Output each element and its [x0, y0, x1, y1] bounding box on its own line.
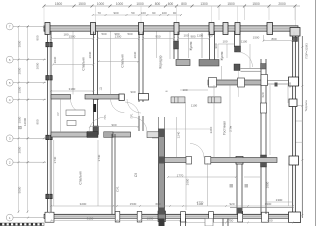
svg-text:100: 100: [141, 11, 146, 15]
svg-text:2000: 2000: [278, 2, 286, 6]
interior wall V8 x263: [261, 59, 266, 214]
kitchen door arc at V6 gap: [238, 52, 253, 67]
svg-text:500: 500: [101, 32, 106, 36]
bottom-left mini scale bar: [0, 223, 44, 226]
window dim top right: [264, 35, 293, 42]
interior horizontal wall H6 y70.5: [241, 68, 262, 70]
svg-text:1500: 1500: [227, 2, 235, 6]
interior wall V6 x237.5: [235, 32, 241, 48]
small marks near V7: [230, 184, 234, 188]
room labels vertical: [79, 41, 233, 184]
svg-text:950: 950: [155, 35, 160, 39]
door arc at V3 gap: [125, 102, 139, 116]
svg-text:800: 800: [271, 37, 276, 41]
interior horizontal wall H2 y132.5: [51, 129, 211, 138]
svg-text:2210: 2210: [209, 126, 213, 133]
svg-text:3150: 3150: [87, 217, 94, 221]
svg-text:1000: 1000: [136, 2, 144, 6]
svg-text:Спальня: Спальня: [79, 171, 83, 184]
svg-text:3000: 3000: [18, 40, 22, 47]
svg-text:800: 800: [36, 35, 40, 40]
svg-text:2000: 2000: [18, 67, 22, 74]
svg-text:1100: 1100: [191, 104, 198, 108]
door arc on H3: [190, 144, 204, 158]
top dimension chain row 2: [93, 14, 181, 16]
svg-text:920: 920: [229, 202, 234, 206]
bathroom fixtures: [66, 110, 85, 126]
svg-text:1500: 1500: [69, 35, 76, 39]
svg-text:С9: С9: [134, 173, 138, 177]
svg-text:3180: 3180: [69, 87, 76, 91]
top exterior wall band: [44, 26, 298, 31]
porch stubs below bottom wall: [181, 219, 229, 227]
column block on V4a: [174, 41, 179, 49]
svg-text:2000: 2000: [18, 146, 22, 153]
svg-text:1530: 1530: [130, 202, 137, 206]
tick slashes on interior dims: [50, 38, 294, 224]
top dim texts row 1: [55, 2, 286, 6]
svg-text:ПР1: ПР1: [104, 114, 107, 119]
svg-text:1770: 1770: [177, 173, 184, 177]
svg-text:1600: 1600: [186, 178, 190, 185]
svg-text:3740: 3740: [53, 156, 57, 163]
left rotated dim texts: [18, 35, 40, 193]
svg-text:1300: 1300: [276, 198, 283, 202]
interior horizontal wall H3 y160: [165, 157, 278, 165]
svg-text:500: 500: [127, 32, 132, 36]
arrowheads on bubble leaders: [27, 26, 45, 219]
svg-text:ПЭР=32М3: ПЭР=32М3: [305, 43, 309, 59]
interior dim line rooms top: [51, 32, 294, 223]
svg-text:100: 100: [162, 11, 167, 15]
svg-text:800: 800: [155, 2, 161, 6]
svg-text:5000: 5000: [18, 186, 22, 193]
svg-text:100: 100: [182, 88, 187, 92]
left exterior wall: [48, 31, 52, 214]
svg-text:900: 900: [111, 123, 116, 127]
svg-text:1240: 1240: [177, 131, 181, 138]
svg-text:2030: 2030: [88, 51, 92, 58]
small dim texts under top band: [183, 34, 259, 44]
right outer dim line: [301, 36, 303, 218]
glazing center lines: [48, 32, 50, 215]
columns on left wall: [46, 42, 52, 198]
axis bubble row (left) with leaders: [6, 23, 13, 221]
svg-text:1000: 1000: [116, 2, 124, 6]
svg-text:3000: 3000: [36, 62, 40, 69]
V2 block at H2 junction: [93, 126, 99, 135]
svg-text:90: 90: [152, 11, 156, 15]
svg-text:17.9м: 17.9м: [230, 125, 233, 132]
door arcs on H1: [71, 99, 86, 114]
svg-text:70: 70: [98, 11, 102, 15]
svg-text:12000: 12000: [23, 117, 27, 126]
interior horizontal wall H4 y82.5 kitchen: [208, 75, 289, 88]
svg-text:1Д: 1Д: [100, 87, 103, 90]
svg-text:ПР1: ПР1: [131, 113, 134, 118]
right exterior wall: [293, 31, 299, 214]
V2 block at H1 junction: [93, 95, 99, 100]
columns on top wall: [45, 23, 300, 37]
svg-text:1500: 1500: [55, 2, 63, 6]
V3 bottom block: [139, 94, 149, 101]
svg-text:600: 600: [155, 202, 160, 206]
svg-text:1100: 1100: [241, 40, 248, 44]
svg-text:600: 600: [267, 219, 272, 223]
door arcs on H2: [89, 117, 104, 132]
svg-text:СУ: СУ: [56, 112, 60, 116]
faint grid verticals from dim row to wall: [44, 6, 296, 27]
svg-text:3500: 3500: [18, 116, 22, 123]
interior wall V2 x95: [94, 32, 98, 133]
svg-text:Спальня: Спальня: [82, 57, 86, 70]
svg-text:900: 900: [130, 90, 135, 94]
rotated small dims along walls: [53, 43, 292, 188]
door frame mark on V2: [93, 104, 96, 112]
svg-text:3740: 3740: [97, 154, 101, 161]
svg-text:1000: 1000: [97, 2, 105, 6]
right margin vertical labels: [304, 43, 309, 112]
svg-text:700: 700: [207, 34, 212, 38]
svg-text:900: 900: [36, 119, 40, 124]
piers at H1 level: [171, 97, 185, 103]
interior wall V3 x141: [139, 32, 143, 132]
svg-text:1800: 1800: [266, 181, 270, 188]
svg-text:1500: 1500: [252, 2, 260, 6]
interior wall V7 x240 low: [237, 162, 242, 214]
svg-text:900: 900: [214, 43, 218, 48]
svg-text:Кухня: Кухня: [189, 41, 193, 50]
svg-text:Кухня: Кухня: [220, 51, 224, 60]
bottom exterior wall band: [44, 214, 298, 218]
level marker symbol: [19, 126, 22, 129]
right dim extension lines: [296, 106, 303, 143]
svg-text:100: 100: [222, 40, 227, 44]
svg-text:1300: 1300: [200, 2, 208, 6]
left outer vertical dim line: [19, 26, 28, 213]
svg-text:600: 600: [168, 2, 174, 6]
svg-text:4770: 4770: [197, 201, 204, 205]
extra interior dim verticals: [186, 33, 250, 210]
svg-text:Гостиная: Гостиная: [223, 121, 227, 135]
svg-text:900: 900: [113, 11, 118, 15]
svg-text:2030: 2030: [53, 56, 57, 63]
svg-text:180: 180: [63, 33, 68, 37]
grid drop lines right: [219, 6, 295, 20]
svg-text:Терраса: Терраса: [304, 100, 308, 112]
drawing frame right edge: [315, 0, 317, 226]
svg-text:50: 50: [131, 11, 135, 15]
svg-text:СУ1: СУ1: [116, 186, 120, 192]
svg-text:90: 90: [173, 11, 177, 15]
svg-text:800: 800: [181, 2, 187, 6]
columns on bottom wall: [45, 211, 269, 222]
svg-text:1500: 1500: [253, 36, 260, 40]
svg-text:900: 900: [288, 82, 292, 87]
partition wall V2b x113: [112, 134, 115, 214]
svg-text:3200: 3200: [80, 202, 87, 206]
interior wall V5 x212: [210, 32, 215, 67]
interior dim texts: [56, 32, 273, 223]
svg-text:Спальня: Спальня: [121, 54, 125, 67]
svg-text:1530: 1530: [147, 217, 154, 221]
interior wall V4 x161 dark: [152, 117, 165, 214]
svg-text:980: 980: [190, 35, 195, 39]
svg-text:1300: 1300: [265, 202, 272, 206]
wall V4a upper from top wall x176: [174, 32, 178, 60]
svg-text:980: 980: [114, 32, 119, 36]
svg-text:620: 620: [261, 92, 265, 97]
svg-text:1500: 1500: [18, 86, 22, 93]
dark block on right wall: [293, 37, 298, 42]
svg-text:1500: 1500: [78, 2, 86, 6]
columns on right wall: [289, 77, 301, 223]
interior horizontal wall H5 y61.5: [176, 60, 219, 67]
svg-text:Коридор: Коридор: [159, 55, 163, 68]
svg-text:2030: 2030: [133, 51, 137, 58]
top dimension chain row 1: [44, 5, 300, 7]
interior horizontal wall H1 y96.5: [51, 94, 124, 101]
svg-text:100: 100: [183, 34, 188, 38]
svg-text:1100: 1100: [197, 34, 204, 38]
